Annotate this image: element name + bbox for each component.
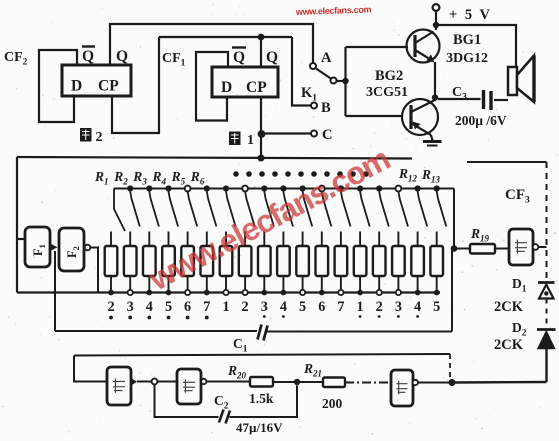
selector tap contact 17 and blade [415,185,428,226]
svg-text:200µ /6V: 200µ /6V [455,113,507,128]
svg-text:R19: R19 [470,226,490,244]
wire Q output of U1 to switch contact A [110,24,313,65]
junction node output [449,379,456,386]
svg-text:C: C [322,127,332,143]
svg-text:F2: F2 [65,246,81,258]
svg-text:1: 1 [357,299,364,315]
svg-text:R13: R13 [421,167,441,185]
svg-text:D2: D2 [512,320,527,339]
gate F5 output bubble [533,244,539,250]
svg-text:D: D [221,79,232,96]
F1 output arrow node [50,244,58,252]
wire F1/F2 node down to C1 line [54,251,56,331]
svg-text:3: 3 [261,299,268,315]
svg-text:CP: CP [98,78,119,95]
selector tap contact 8 and blade [242,186,254,227]
wire input stub to F1 [17,238,25,240]
capacitor C3 [484,90,492,110]
svg-text:Q: Q [233,49,245,66]
svg-text:7: 7 [337,299,344,315]
wire to switch contact C [261,132,311,134]
svg-text:BG1: BG1 [453,32,481,48]
svg-text:4: 4 [414,299,421,315]
selector tap contact 6 and blade [204,185,217,226]
resistor column 11 (R11) [296,232,309,316]
selector tap contact 18 and blade [434,185,447,226]
svg-text:2: 2 [96,130,103,145]
selector tap contact 5 and blade [185,186,197,227]
resistor R19 [470,244,495,254]
svg-text:7: 7 [203,299,210,315]
svg-text:CP: CP [246,79,267,96]
wire bracket vertical [344,47,346,116]
wire C1 line right segment [267,331,452,333]
svg-text:3CG51: 3CG51 [366,85,408,100]
svg-text:R4: R4 [152,169,167,187]
resistor column 3 (R3) [143,232,156,320]
wire bottom return to oscillator [452,381,547,384]
switch K1 blade [316,69,332,80]
svg-text:1: 1 [247,133,254,148]
svg-text:R21: R21 [303,361,322,379]
svg-text:R12: R12 [398,166,418,184]
F3 output arrow [131,378,137,386]
gate F2 [59,228,84,271]
wire resistor bottom bus [17,291,440,293]
svg-text:www.elecfans.com: www.elecfans.com [295,4,372,17]
wire node to R19 [457,248,470,250]
gate F5 (oscillator) [509,229,533,265]
resistor column 8 (R8) [239,232,252,316]
svg-text:200: 200 [322,396,343,411]
wire F4 to R20 [207,381,251,383]
wire to capacitor C3 [438,98,481,100]
resistor column 6 (R6) [201,232,214,320]
svg-text:3: 3 [127,299,134,315]
svg-text:R3: R3 [132,169,147,187]
wire R21 to F6 (scan dash-dot) [345,382,391,384]
svg-text:Q: Q [266,49,278,66]
wire C2 branch right [230,386,298,418]
wire divider box top edge [17,157,412,159]
selector tap contact 15 and blade [376,185,389,226]
junction node on bracket [342,78,348,84]
svg-text:4: 4 [280,299,287,315]
selector tap contact 7 and blade [223,185,236,226]
wire F2 output to bus [91,248,99,293]
wire diode chain lower [545,349,547,383]
selector tap contact 13 and blade [338,185,351,226]
selector tap contact 16 and blade [396,186,409,227]
svg-text:CF3: CF3 [505,187,530,206]
svg-text:2: 2 [242,299,249,315]
wire C3 to speaker [494,99,508,101]
wire R19 to gate [495,248,509,250]
svg-text:2: 2 [376,299,383,315]
F6 output bubble [413,380,418,385]
svg-text:1.5k: 1.5k [249,391,274,406]
wire up to R19 node [451,250,453,332]
resistor column 4 (R4) [162,232,175,320]
gate F1 [25,227,50,267]
svg-text:5: 5 [299,299,306,315]
resistor column 18 (R18) [430,232,443,316]
wire C1 line left segment [55,330,257,332]
wire between diodes (dashed scan) [546,299,548,330]
svg-text:www.elecfans.com: www.elecfans.com [143,141,396,298]
wire gate output to diode chain [539,246,547,248]
wire pole to base bracket [337,80,347,82]
junction node C [258,130,266,138]
junction node CP bus [258,155,265,162]
junction node R19 input [451,245,458,252]
label chu-1 (flip-flop 1) [229,132,254,149]
svg-text:3DG12: 3DG12 [446,51,488,66]
output label Qbar (U1) [82,47,95,66]
selector tap contact 14 and blade [357,185,370,226]
wire feedback loop top edge [74,354,450,356]
resistor column 14 (R14) [354,232,367,318]
wire feedback loop left edge [74,356,107,382]
svg-text:A: A [321,50,332,66]
wire net B horizontal [159,36,292,38]
selector tap contact 4 and blade [165,185,178,226]
switch contact A [310,63,316,69]
wire tap bus down to R19 node [453,189,455,250]
resistor column 7 (R7) [220,232,233,316]
diode D1 [538,283,555,299]
svg-text:D1: D1 [512,276,527,295]
svg-text:F1: F1 [31,244,47,256]
svg-text:Q: Q [82,48,94,65]
svg-text:CF2: CF2 [4,50,28,68]
svg-text:2CK: 2CK [494,337,524,353]
wire top edge right segment [467,161,547,163]
svg-text:47µ/16V: 47µ/16V [236,420,283,435]
resistor column 13 (R13) [335,232,348,316]
svg-text:BG2: BG2 [375,68,403,84]
wire Q output of U2 up to net B [260,37,262,67]
svg-text:R1: R1 [94,169,109,187]
svg-text:R5: R5 [171,169,186,187]
resistor column 1 (R1) [105,232,118,320]
svg-text:B: B [321,100,331,116]
svg-text:C3: C3 [452,85,467,103]
svg-text:+ 5 V: + 5 V [449,7,492,23]
resistor column 12 (R12) [316,232,329,316]
wire +5V rail to speaker [439,25,516,67]
gate F4 [177,369,201,404]
wire diode chain upper (dashed scan) [546,162,548,282]
selector tap contact 10 and blade [280,185,293,226]
svg-text:D: D [71,78,82,95]
wire feedback loop right corner (dashed scan) [449,354,451,382]
junction node R20/R21/C2 [294,379,300,385]
switch contact B [311,103,317,109]
svg-text:1: 1 [222,299,229,315]
resistor R20 [250,377,273,387]
svg-text:R20: R20 [227,363,247,381]
resistor column 5 (R5) [181,232,194,320]
wire bracket to BG2 base [346,115,404,117]
resistor column 10 (R10) [277,232,290,318]
svg-text:CF1: CF1 [162,51,186,69]
resistor column 17 (R17) [411,232,424,318]
speaker LS [508,56,534,103]
svg-text:5: 5 [433,299,440,315]
junction node on net B [258,34,265,41]
output label Qbar (U2) [232,48,246,67]
resistor R21 [323,378,345,388]
selector tap contact 12 and blade [319,186,332,227]
wire node to F4 [158,381,178,383]
F4 output bubble [201,379,206,384]
wire tap bus [114,188,454,190]
flip-flop U1 (D CP) block [62,65,131,96]
svg-text:R6: R6 [190,169,205,187]
wire net B down to contact B [292,37,311,106]
transistor BG1 [407,30,440,63]
diode D2 [537,330,556,349]
wire Qbar feedback to D (U1) [39,50,77,122]
wire divider box left edge [16,157,18,293]
gate F3 [107,367,131,405]
svg-text:6: 6 [318,299,325,315]
selector tap contact 3 and blade [146,185,159,226]
wire bracket to BG1 base [346,46,409,48]
label chu-2 (flip-flop 2) [80,128,103,145]
svg-text:K1: K1 [301,85,317,104]
wire R20 to R21 [273,381,323,383]
selector tap contact 11 and blade [300,185,313,226]
svg-text:6: 6 [184,299,191,315]
selector tap contact 2 and blade [127,185,140,226]
resistor column 15 (R15) [373,232,386,318]
resistor column 16 (R16) [392,232,405,318]
wire F6 output to node [418,382,452,384]
+5V terminal [433,4,440,30]
switch contact C [311,131,317,137]
wire CP of U2 down to divider box [260,97,262,159]
junction node +5V rail [433,22,439,28]
resistor column 2 (R2) [124,232,137,320]
svg-text:C2: C2 [214,393,229,412]
ground symbol [423,135,442,146]
capacitor C1 [258,325,268,341]
svg-text:3: 3 [395,299,402,315]
wire C2 branch left [155,385,219,418]
svg-text:2CK: 2CK [494,299,524,315]
svg-text:4: 4 [146,299,153,315]
wire Qbar feedback to D (U2) [196,52,228,121]
resistor column 9 (R9) [258,232,271,318]
transistor BG2 [402,99,438,135]
selector tap contact 9 and blade [261,185,274,226]
svg-text:2: 2 [107,299,114,315]
switch K1 pole contact [331,78,337,84]
wire BG1 emitter to BG2 collector [434,62,436,101]
wire CP of U1 down and right [112,37,159,133]
svg-text:R2: R2 [113,169,128,187]
F2 output bubble [85,245,91,251]
svg-text:5: 5 [165,299,172,315]
tap bus left end blade [114,189,125,232]
svg-text:C1: C1 [233,336,248,355]
flip-flop U2 (D CP) block [212,67,278,97]
gate F6 [391,370,413,406]
ellipsis dots [233,171,369,177]
capacitor C2 [219,410,230,424]
wire F3 to node [137,381,152,383]
junction node emitter/collector [432,94,438,100]
node bubble F4 input [152,379,158,385]
svg-text:Q: Q [116,48,128,65]
